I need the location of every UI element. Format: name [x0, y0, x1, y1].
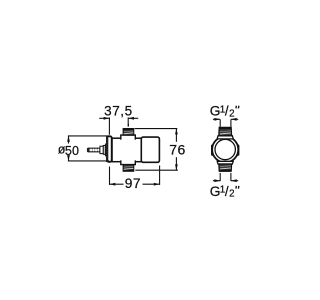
top threaded port (side view) — [123, 129, 134, 136]
svg-text:2: 2 — [229, 189, 234, 200]
dimension 37,5 extension line right — [127, 117, 129, 126]
bottom collar (front view) — [217, 161, 233, 164]
dimension o50 extension top — [68, 135, 109, 137]
G1/2 top: arrows — [213, 118, 238, 121]
dimension 76 extension top — [135, 128, 178, 130]
G1/2 top: extension lines — [219, 119, 221, 127]
G1/2 bottom: extension lines — [219, 173, 221, 181]
bottom threaded pipe (front view) — [219, 164, 232, 171]
right cylinder — [141, 137, 159, 162]
svg-text:97: 97 — [125, 176, 141, 191]
flange thick left band — [106, 136, 108, 162]
svg-text:37,5: 37,5 — [104, 104, 132, 119]
stem collar section — [103, 146, 105, 155]
dimension 37,5 extension line left — [108, 117, 110, 134]
top boss — [121, 135, 136, 140]
dimension 76 extension bottom — [135, 169, 178, 171]
dimension 76 line and arrows — [175, 129, 178, 171]
dimension o50 extension bottom — [68, 160, 109, 162]
stem middle section — [100, 146, 103, 153]
stem thin threaded section — [87, 148, 100, 152]
dimension o50 vertical line and arrows — [67, 136, 70, 161]
G1/2 bottom: arrows — [213, 179, 238, 182]
dimension 97 extension right — [159, 166, 161, 185]
dimension 37,5 left arrow — [99, 117, 109, 120]
inner circle — [215, 139, 235, 159]
hub on flange face — [105, 143, 109, 156]
svg-text:76: 76 — [169, 142, 186, 158]
centerline tick above top port — [127, 124, 129, 127]
right lug — [235, 145, 239, 155]
bottom boss — [121, 160, 136, 164]
bottom threaded port (side view) — [123, 165, 134, 172]
top threaded pipe (front view) — [219, 127, 232, 135]
top collar (front view) — [217, 136, 233, 139]
outer circle — [212, 136, 238, 162]
G1/2 bottom: label — [210, 184, 239, 200]
dimension 37,5 right arrow — [128, 117, 138, 120]
body main block — [112, 138, 141, 162]
svg-text:2: 2 — [229, 109, 234, 120]
dimension 97 extension left — [109, 167, 111, 185]
dimension 97 line and arrows — [110, 183, 160, 186]
G1/2 top: label — [210, 104, 239, 120]
wall flange — [107, 136, 112, 162]
left lug — [212, 145, 216, 155]
svg-text:50: 50 — [65, 144, 79, 158]
